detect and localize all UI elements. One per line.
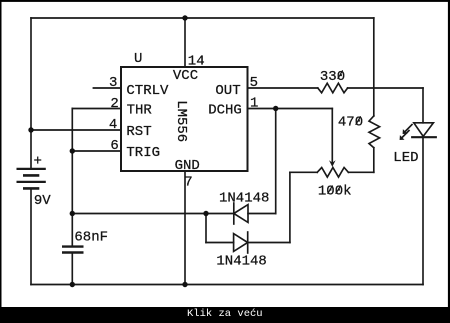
wire cap to ground rail [71, 253, 73, 285]
wire CTRLV stub pin 3 [93, 87, 121, 89]
LED arrow heads [329, 129, 408, 167]
diode D1 cathode bar [233, 203, 235, 224]
wire 470 bottom [373, 148, 375, 173]
battery 9V plates [17, 169, 84, 253]
capacitor 68nF plate bottom [62, 251, 84, 253]
node DCHG junction [273, 106, 278, 111]
svg-text:THR: THR [127, 103, 153, 119]
wire THR pin 2 [72, 108, 121, 110]
svg-text:TRIG: TRIG [126, 145, 160, 161]
wire pot wiper vertical [331, 109, 333, 163]
wire R330 to LED [348, 87, 423, 89]
node diode split junction [203, 211, 208, 216]
resistor 470 [369, 116, 380, 148]
svg-text:330: 330 [320, 69, 345, 85]
wire LED cathode to ground rail [422, 137, 424, 284]
svg-text:68nF: 68nF [74, 229, 108, 245]
svg-text:100k: 100k [318, 184, 352, 200]
svg-text:Klik za veću: Klik za veću [187, 308, 263, 320]
svg-text:DCHG: DCHG [208, 103, 242, 119]
frame border right [448, 0, 450, 307]
node cap ground junction [70, 282, 75, 287]
battery long plate 2 [17, 181, 46, 183]
wire GND pin 7 [184, 171, 186, 285]
wire top rail [31, 17, 374, 19]
svg-text:VCC: VCC [173, 68, 198, 84]
capacitor 68nF plate top [62, 245, 84, 247]
LED arrow 2 shaft [402, 131, 409, 138]
wire OUT pin 5 to R330 [248, 87, 318, 89]
svg-text:7: 7 [184, 175, 192, 191]
battery short plate 2 [23, 187, 39, 190]
svg-text:LM556: LM556 [173, 100, 189, 142]
wire LED anode [422, 88, 424, 123]
wire left rail to battery [30, 18, 32, 169]
IC U LM556 body [121, 67, 248, 171]
svg-text:470: 470 [338, 115, 363, 131]
zero slashes (plotter font style) [328, 71, 361, 194]
slash in 330 zero [338, 71, 343, 79]
wire D2 cathode right [248, 242, 290, 244]
battery long plate 1 [17, 168, 46, 170]
LED triangle [414, 123, 434, 137]
node TRIG junction [70, 148, 75, 153]
svg-text:3: 3 [109, 75, 117, 91]
wire DCHG to D1 vertical [275, 109, 277, 214]
svg-text:1N4148: 1N4148 [219, 190, 269, 206]
svg-text:RST: RST [126, 124, 151, 140]
svg-text:2: 2 [110, 96, 118, 112]
svg-text:9V: 9V [34, 193, 51, 209]
pot wiper arrow head [329, 160, 336, 167]
node cap/diode junction [70, 211, 75, 216]
wire to D2 anode [206, 242, 234, 244]
svg-text:1N4148: 1N4148 [216, 253, 266, 269]
LED arrow 1 shaft [405, 125, 412, 132]
wire RST pin 4 [31, 129, 121, 131]
slash in 100k zero 1 [328, 186, 333, 194]
wire node to diode D1 [72, 213, 234, 215]
battery short plate 1 [23, 174, 39, 177]
resistor 330 [318, 83, 348, 93]
wire battery minus to bottom rail [30, 189, 32, 285]
wire 470 top to VCC rail [373, 18, 375, 116]
wire VCC pin 14 [184, 18, 186, 67]
svg-text:4: 4 [109, 117, 117, 133]
wire DCHG pin 1 [248, 108, 333, 110]
caption bar [0, 307, 450, 323]
svg-text:6: 6 [110, 138, 118, 154]
svg-text:OUT: OUT [215, 83, 240, 99]
diode D2 cathode bar [247, 232, 249, 253]
node RST junction [28, 127, 33, 132]
diode D2 1N4148 triangle [234, 234, 248, 252]
wire D1 anode right [248, 213, 276, 215]
wire D2 up to pot left [289, 172, 291, 242]
svg-text:1: 1 [250, 95, 258, 111]
diode D1 1N4148 triangle [234, 205, 248, 223]
node VCC rail junction [182, 15, 187, 20]
wire node down to diode D2 [205, 214, 207, 243]
wire pot right terminal [348, 171, 373, 173]
wire pot left terminal [290, 171, 317, 173]
svg-text:+: + [34, 154, 42, 170]
frame border left [0, 0, 2, 307]
wire bottom ground rail [31, 284, 423, 286]
slash in 100k zero 2 [336, 186, 341, 194]
wire timing node vertical [71, 109, 73, 247]
node GND rail junction [182, 282, 187, 287]
svg-text:GND: GND [175, 158, 200, 174]
slash in 470 zero [356, 117, 361, 125]
svg-text:LED: LED [393, 150, 418, 166]
svg-text:CTRLV: CTRLV [126, 83, 169, 99]
frame border top [0, 0, 450, 2]
potentiometer 100k track [317, 168, 348, 178]
LED cathode bar [412, 136, 436, 138]
svg-text:5: 5 [250, 75, 258, 91]
wire TRIG pin 6 [72, 150, 121, 152]
svg-text:U: U [134, 51, 142, 67]
